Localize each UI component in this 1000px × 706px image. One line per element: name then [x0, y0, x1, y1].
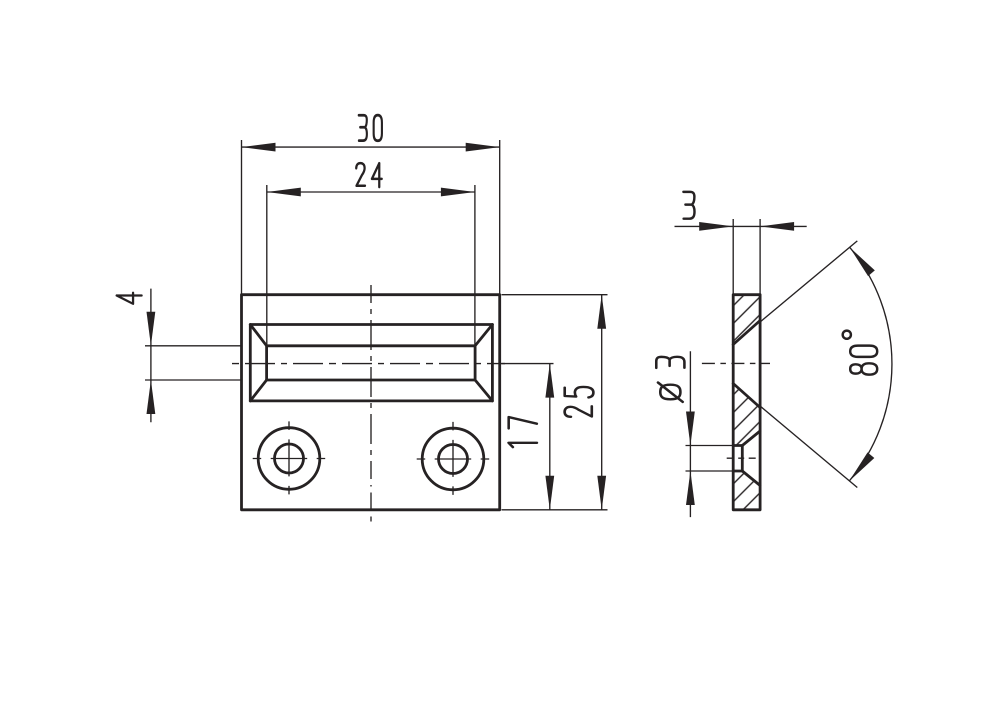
dim 24 extension line left	[266, 185, 268, 346]
slot chamfer upper (section)	[733, 321, 760, 345]
dim 24 arrow left	[267, 188, 301, 197]
hole channel bottom edge	[733, 470, 742, 473]
dim 4 arrow top	[147, 312, 156, 346]
dim 24 arrow right	[441, 188, 475, 197]
angle arc	[849, 247, 892, 481]
dim 3 extension line left	[732, 219, 734, 295]
dim 25 extension line bottom	[502, 509, 608, 511]
hole right inner circle	[439, 445, 468, 474]
dim 3 dimension line	[675, 225, 807, 227]
dim 24 dimension line	[267, 191, 475, 193]
hole left inner circle	[275, 444, 304, 473]
angle line upper	[760, 241, 857, 322]
hole countersink upper diagonal	[742, 431, 760, 446]
hole left vertical crosshair	[288, 421, 290, 494]
hole right countersink outer circle	[422, 428, 484, 490]
dim 4 dimension line	[150, 289, 152, 423]
dim 30 dimension line	[242, 146, 500, 148]
dim 17 text (rotated)	[509, 417, 537, 447]
dim Ø3 dimension line	[689, 351, 691, 517]
dim 4 text (rotated)	[117, 293, 142, 304]
plate vertical centerline	[370, 285, 372, 524]
side view plate outline	[733, 295, 760, 510]
plate outline front view	[242, 295, 500, 510]
dim 3 extension line right	[759, 219, 761, 295]
angle line lower	[760, 406, 857, 488]
dim Ø3 text (rotated)	[656, 357, 684, 402]
dim 25 dimension line	[601, 295, 603, 510]
hole channel top edge	[733, 444, 742, 447]
dim 24 text	[356, 163, 382, 187]
slot chamfer corner bottom-right	[475, 380, 492, 401]
slot chamfer corner top-right	[475, 325, 492, 346]
angle arrow lower	[846, 452, 875, 484]
dim 4 extension line top	[145, 345, 242, 347]
dim Ø3 arrow top (outside pointing down)	[686, 412, 695, 446]
slot chamfer corner bottom-left	[250, 380, 266, 401]
dim 30 arrow left	[242, 143, 276, 152]
dim 4 arrow bottom	[147, 380, 156, 414]
dim 17 arrow top	[545, 364, 554, 398]
dim 3 arrow left (outside pointing right)	[699, 222, 733, 231]
side hole centerline	[727, 457, 762, 459]
dim 25 text (rotated)	[565, 387, 594, 417]
slot countersink outer rectangle	[250, 325, 492, 401]
section hatching	[733, 295, 760, 510]
dim 25 arrow bottom	[597, 476, 606, 510]
dim 25 arrow top	[597, 295, 606, 329]
hole left horizontal crosshair	[253, 458, 326, 460]
slot chamfer corner top-left	[250, 325, 266, 346]
hole left countersink outer circle	[258, 428, 320, 490]
dim 3 text	[683, 192, 694, 219]
slot inner rectangle	[267, 346, 476, 380]
dim Ø3 arrow bottom (outside pointing up)	[686, 471, 695, 505]
slot chamfer lower (section)	[733, 384, 760, 408]
hole countersink lower diagonal	[742, 471, 760, 486]
dim 80 deg text (rotated)	[843, 331, 878, 375]
hole right horizontal crosshair	[417, 458, 490, 460]
dim 30 arrow right	[466, 143, 500, 152]
dim 30 extension line left	[241, 140, 243, 295]
side slot centerline	[702, 362, 770, 364]
dim 25 extension line top	[502, 294, 608, 296]
slot horizontal centerline	[232, 363, 505, 365]
dim Ø3 extension line bottom	[686, 470, 734, 472]
hole channel end vertical	[741, 446, 744, 472]
dim 17 arrow bottom	[545, 476, 554, 510]
dim 30 text	[359, 115, 382, 141]
dim 24 extension line right	[474, 185, 476, 346]
dim 3 arrow right (outside pointing left)	[760, 222, 794, 231]
angle arrow upper	[846, 244, 875, 276]
dim 30 extension line right	[499, 140, 501, 295]
dim 17 dimension line	[549, 364, 551, 510]
hole right vertical crosshair	[452, 422, 454, 495]
dim Ø3 extension line top	[686, 445, 734, 447]
dim 4 extension line bottom	[145, 379, 242, 381]
dim 17 extension line top (slot centerline ext)	[502, 363, 554, 365]
